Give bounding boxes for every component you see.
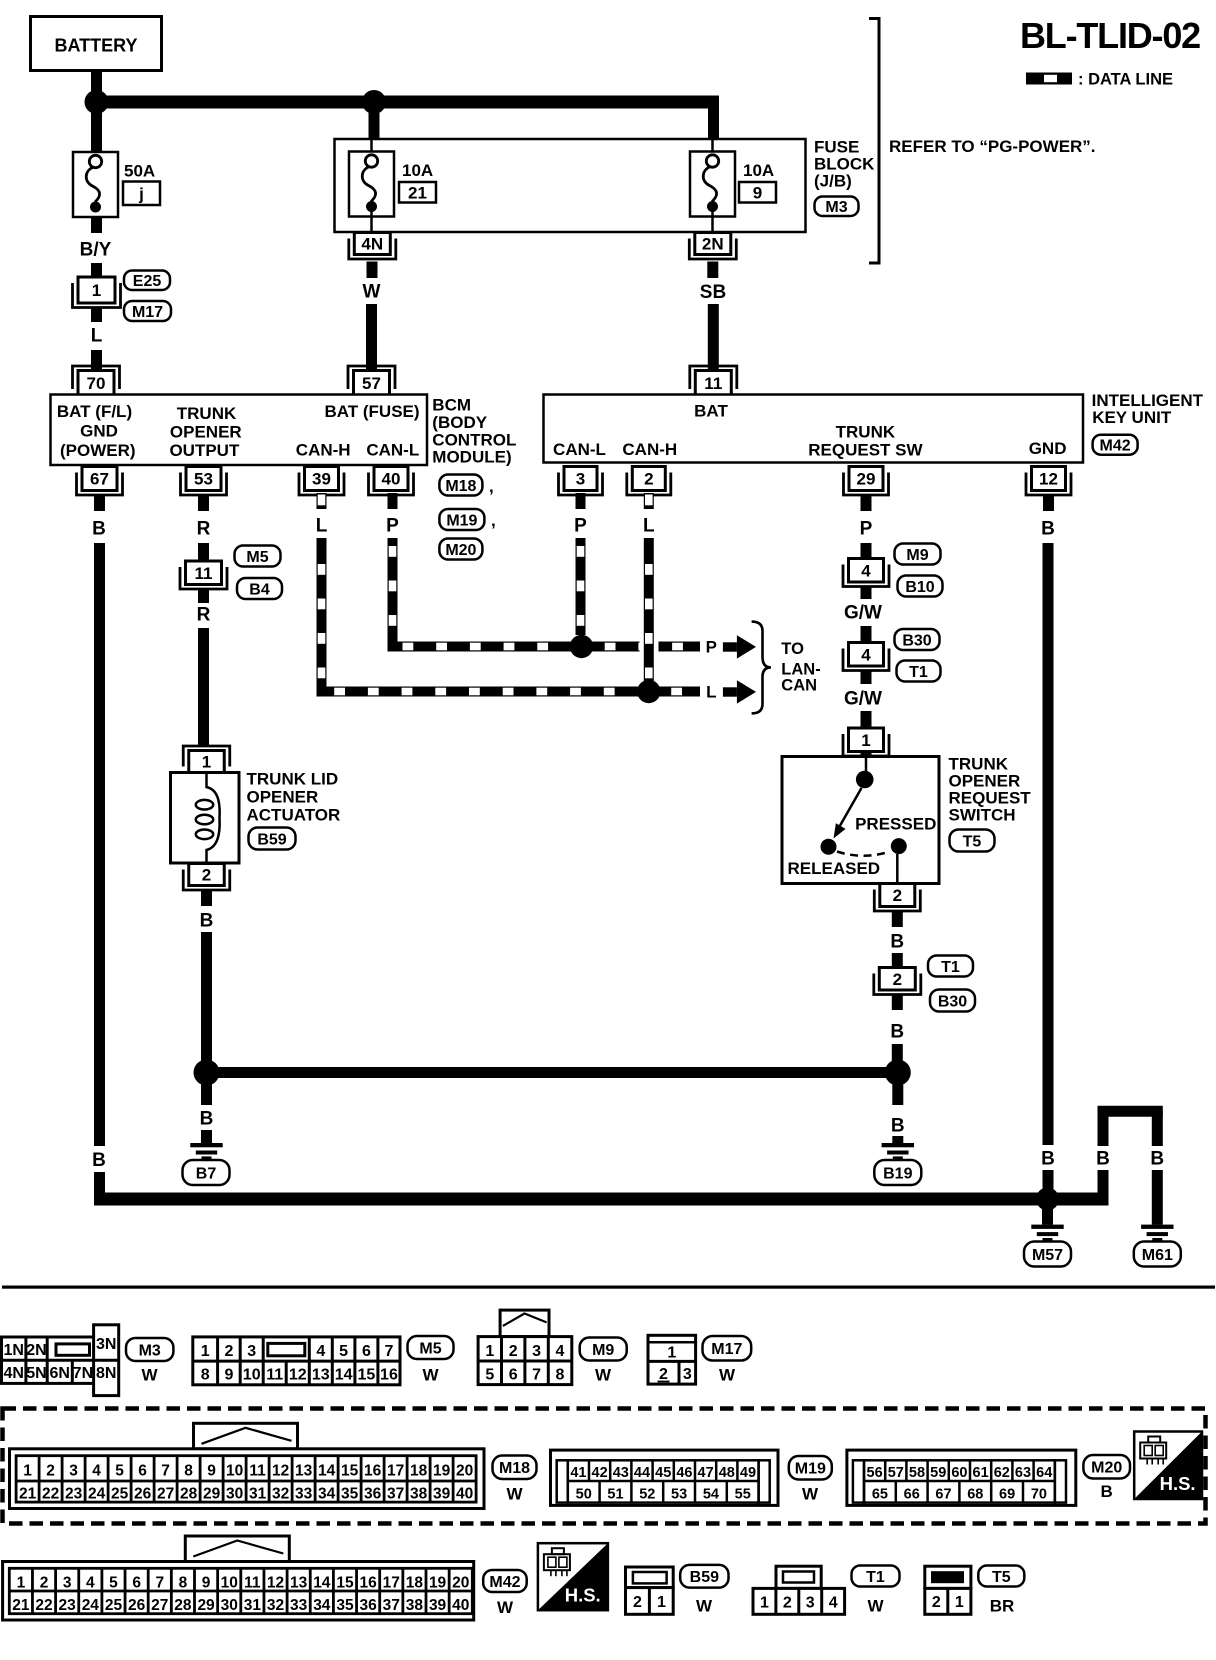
svg-text:45: 45 (655, 1465, 671, 1481)
brace LAN-CAN (752, 622, 771, 714)
pin 70 BCM (73, 366, 120, 395)
connector M42 pinout (3, 1536, 474, 1620)
pin 12 IKU (1026, 467, 1071, 496)
svg-text:43: 43 (613, 1465, 629, 1481)
svg-text:: DATA LINE: : DATA LINE (1078, 71, 1173, 89)
svg-text:42: 42 (592, 1465, 608, 1481)
svg-text:RELEASED: RELEASED (788, 859, 881, 878)
connector B59 pinout (626, 1567, 674, 1614)
svg-text:P: P (386, 516, 399, 537)
svg-text:23: 23 (65, 1486, 83, 1503)
svg-text:3: 3 (69, 1462, 78, 1479)
svg-text:T5: T5 (963, 833, 982, 850)
svg-text:5: 5 (485, 1367, 494, 1384)
connector T5 pinout (925, 1566, 971, 1614)
wire to switch box (861, 752, 872, 757)
svg-text:M19: M19 (795, 1461, 826, 1478)
pin 40 BCM (369, 467, 414, 496)
svg-text:26: 26 (128, 1597, 146, 1614)
svg-text:M20: M20 (445, 542, 476, 559)
oval T1 bottom (852, 1566, 900, 1616)
wire P pin 29 down (860, 495, 873, 559)
svg-text:51: 51 (607, 1487, 623, 1503)
svg-text:L: L (91, 326, 103, 347)
oval T1 inline (897, 661, 941, 682)
oval B30 inline (895, 629, 940, 650)
svg-text:P: P (574, 516, 587, 537)
svg-text:50: 50 (576, 1487, 592, 1503)
svg-text:6: 6 (132, 1574, 141, 1591)
svg-text:1: 1 (861, 731, 870, 750)
svg-text:13: 13 (295, 1462, 313, 1479)
svg-text:R: R (197, 519, 211, 540)
svg-text:2N: 2N (26, 1342, 46, 1359)
bracket refer pg-power (869, 19, 1096, 264)
junction B right (885, 1060, 911, 1086)
junction B left (194, 1060, 220, 1086)
svg-text:SWITCH: SWITCH (949, 806, 1016, 825)
svg-text:M17: M17 (132, 304, 163, 321)
svg-text:1: 1 (92, 281, 101, 300)
svg-text:1: 1 (201, 1343, 210, 1360)
svg-text:5: 5 (109, 1574, 118, 1591)
svg-text:11: 11 (249, 1462, 266, 1479)
arrow P to LAN-CAN (706, 635, 756, 658)
svg-text:22: 22 (42, 1486, 59, 1503)
oval M42 IKU (1093, 435, 1138, 455)
svg-text:9: 9 (207, 1462, 216, 1479)
svg-text:18: 18 (406, 1574, 424, 1591)
svg-text:W: W (363, 282, 381, 303)
svg-text:B: B (1150, 1149, 1164, 1170)
connector 2 T1/B30 (874, 968, 921, 995)
oval M17 (124, 301, 171, 321)
oval T5 bottom (978, 1566, 1024, 1616)
svg-text:T1: T1 (909, 664, 928, 681)
svg-text:17: 17 (387, 1462, 404, 1479)
svg-text:37: 37 (383, 1597, 400, 1614)
svg-text:2: 2 (932, 1594, 941, 1611)
svg-text:BR: BR (990, 1597, 1015, 1616)
bottom ground bus (94, 1193, 1048, 1206)
svg-text:G/W: G/W (844, 603, 882, 624)
svg-text:4: 4 (86, 1574, 95, 1591)
svg-text:11: 11 (244, 1574, 261, 1591)
svg-text:R: R (197, 605, 211, 626)
wire B/Y fuse to connector E25 (80, 217, 112, 278)
data line legend (1026, 71, 1173, 89)
svg-text:16: 16 (364, 1462, 382, 1479)
connector 4N (349, 233, 396, 260)
svg-text:3N: 3N (96, 1336, 116, 1353)
pin 11 IKU (690, 366, 737, 395)
svg-text:(POWER): (POWER) (60, 441, 136, 460)
svg-text:B: B (1096, 1149, 1110, 1170)
svg-text:4: 4 (316, 1343, 325, 1360)
arrow L to LAN-CAN (706, 680, 756, 703)
oval M19 BCM (439, 509, 495, 530)
svg-text:10A: 10A (402, 161, 433, 180)
svg-text:OUTPUT: OUTPUT (169, 441, 240, 460)
svg-text:12: 12 (289, 1367, 307, 1384)
connector M9 pinout (478, 1310, 572, 1385)
svg-text:10: 10 (243, 1367, 261, 1384)
section divider (2, 1286, 1215, 1289)
svg-text:TRUNK: TRUNK (177, 404, 237, 423)
svg-text:BAT: BAT (694, 402, 728, 421)
svg-text:12: 12 (272, 1462, 289, 1479)
connector 2N (689, 233, 736, 260)
fuse 50A j (73, 152, 160, 217)
svg-text:32: 32 (267, 1597, 284, 1614)
svg-text:,: , (489, 477, 494, 496)
junction battery bus (85, 90, 109, 114)
svg-text:39: 39 (429, 1597, 447, 1614)
svg-text:2: 2 (659, 1366, 668, 1383)
pin 2 IKU (627, 467, 671, 496)
svg-text:BCM: BCM (432, 396, 471, 415)
dashed group border (3, 1409, 1206, 1524)
svg-text:38: 38 (410, 1486, 428, 1503)
svg-text:64: 64 (1036, 1465, 1052, 1481)
svg-text:TRUNK: TRUNK (836, 423, 896, 442)
svg-text:2: 2 (40, 1574, 49, 1591)
svg-text:33: 33 (290, 1597, 308, 1614)
svg-text:61: 61 (973, 1465, 989, 1481)
oval B4 (237, 578, 282, 599)
svg-text:55: 55 (735, 1487, 751, 1503)
oval M17 bottom (703, 1336, 752, 1385)
svg-text:8: 8 (556, 1367, 565, 1384)
wire B to junction (890, 996, 904, 1073)
wire CAN-H L from pin 2 (643, 493, 655, 683)
svg-text:41: 41 (570, 1465, 586, 1481)
oval M3 bottom (126, 1338, 173, 1385)
svg-text:50A: 50A (124, 162, 155, 181)
svg-text:B: B (92, 1150, 106, 1171)
oval M18 bottom (493, 1456, 537, 1504)
svg-text:T1: T1 (941, 959, 960, 976)
svg-text:31: 31 (249, 1486, 267, 1503)
svg-text:8: 8 (184, 1462, 193, 1479)
svg-text:67: 67 (90, 470, 109, 489)
svg-text:CAN-L: CAN-L (366, 441, 419, 460)
svg-text:65: 65 (872, 1487, 888, 1503)
svg-text:2: 2 (893, 886, 902, 905)
svg-text:25: 25 (111, 1486, 129, 1503)
svg-text:M9: M9 (592, 1342, 614, 1359)
svg-text:SB: SB (700, 282, 726, 303)
svg-text:38: 38 (406, 1597, 424, 1614)
H.S. symbol row3 (538, 1543, 608, 1610)
svg-text:3: 3 (247, 1343, 256, 1360)
svg-text:6: 6 (362, 1343, 371, 1360)
svg-text:8: 8 (201, 1367, 210, 1384)
connector M20 pinout (847, 1450, 1076, 1505)
oval E25 (124, 271, 170, 291)
svg-text:3: 3 (532, 1343, 541, 1360)
svg-text:33: 33 (295, 1486, 313, 1503)
svg-text:40: 40 (452, 1597, 469, 1614)
svg-text:57: 57 (362, 374, 381, 393)
connector M17 pinout (648, 1335, 696, 1384)
svg-text:16: 16 (360, 1574, 378, 1591)
svg-text:3: 3 (806, 1595, 815, 1612)
svg-text:25: 25 (105, 1597, 123, 1614)
svg-text:49: 49 (740, 1465, 756, 1481)
ground B19 (874, 1143, 921, 1185)
svg-text:M17: M17 (711, 1341, 742, 1358)
IKU label (1092, 391, 1204, 427)
BCM box (51, 395, 428, 466)
svg-text:B: B (891, 1116, 905, 1137)
svg-text:B10: B10 (905, 579, 934, 596)
oval T5 (950, 830, 995, 852)
svg-text:58: 58 (909, 1465, 925, 1481)
wire L connector to BCM pin 70 (91, 308, 103, 370)
svg-text:8: 8 (179, 1574, 188, 1591)
svg-text:TO: TO (781, 640, 804, 658)
connector 4 M9/B10 (843, 559, 889, 587)
svg-text:2: 2 (509, 1343, 518, 1360)
svg-text:1N: 1N (3, 1342, 23, 1359)
oval B10 (898, 576, 943, 597)
svg-text:B/Y: B/Y (80, 240, 112, 261)
svg-text:1: 1 (23, 1462, 32, 1479)
svg-text:10: 10 (221, 1574, 238, 1591)
oval M42 bottom (483, 1570, 527, 1617)
svg-text:M20: M20 (1091, 1460, 1122, 1477)
svg-text:68: 68 (967, 1487, 983, 1503)
svg-text:(J/B): (J/B) (814, 172, 852, 191)
svg-text:15: 15 (358, 1367, 376, 1384)
svg-text:OPENER: OPENER (170, 423, 242, 442)
svg-text:10: 10 (226, 1462, 243, 1479)
svg-text:7: 7 (384, 1343, 393, 1360)
svg-text:11: 11 (195, 564, 213, 583)
svg-text:W: W (422, 1366, 439, 1385)
svg-text:BATTERY: BATTERY (55, 36, 138, 56)
wire battery to bus (91, 70, 102, 103)
svg-text:T5: T5 (992, 1569, 1011, 1586)
oval T1 inline 2 (928, 956, 973, 977)
svg-text:22: 22 (35, 1597, 52, 1614)
connector T1 pinout (753, 1566, 845, 1614)
svg-text:M61: M61 (1142, 1247, 1173, 1264)
wire M57 stub (1042, 1199, 1053, 1225)
svg-text:M18: M18 (499, 1460, 530, 1477)
junction CAN L (637, 680, 660, 703)
svg-text:4N: 4N (361, 235, 383, 254)
svg-text:PRESSED: PRESSED (855, 815, 936, 834)
pin 67 BCM (77, 467, 123, 496)
svg-text:54: 54 (703, 1487, 719, 1503)
svg-text:W: W (506, 1485, 523, 1504)
svg-text:63: 63 (1015, 1465, 1031, 1481)
svg-text:1: 1 (955, 1594, 964, 1611)
svg-text:67: 67 (935, 1487, 951, 1503)
oval M3 fuse block (815, 197, 859, 217)
svg-text:ACTUATOR: ACTUATOR (247, 806, 341, 825)
wire B actuator down (200, 890, 214, 1073)
svg-text:CAN: CAN (781, 677, 817, 695)
wire B pin 67 down (92, 495, 106, 1199)
oval M5 bottom (408, 1336, 454, 1385)
label B n-left (1096, 1149, 1110, 1170)
svg-text:B: B (890, 1022, 904, 1043)
svg-text:4: 4 (861, 561, 871, 580)
svg-text:GND: GND (80, 422, 118, 441)
oval M20 bottom (1083, 1455, 1130, 1501)
svg-text:62: 62 (994, 1465, 1010, 1481)
svg-text:21: 21 (408, 184, 427, 203)
wire R to actuator (197, 590, 211, 748)
wire bus to fuse 21 (369, 102, 380, 140)
svg-text:GND: GND (1029, 439, 1067, 458)
svg-text:W: W (867, 1597, 884, 1616)
svg-text:3: 3 (63, 1574, 72, 1591)
svg-text:57: 57 (888, 1465, 904, 1481)
svg-text:B: B (200, 1109, 214, 1130)
svg-text:BL-TLID-02: BL-TLID-02 (1020, 15, 1200, 56)
svg-text:2: 2 (783, 1595, 792, 1612)
svg-text:1: 1 (657, 1594, 666, 1611)
svg-text:7: 7 (155, 1574, 164, 1591)
svg-text:30: 30 (226, 1486, 243, 1503)
svg-text:M5: M5 (419, 1340, 441, 1357)
wire bus to fuse block (708, 102, 719, 140)
svg-text:W: W (141, 1366, 158, 1385)
svg-text:7: 7 (532, 1367, 541, 1384)
svg-text:OPENER: OPENER (247, 788, 319, 807)
oval M19 bottom (789, 1456, 832, 1504)
svg-text:G/W: G/W (844, 689, 882, 710)
svg-text:11: 11 (266, 1367, 283, 1384)
wire W 4N to BCM pin 57 (363, 262, 381, 370)
svg-text:17: 17 (383, 1574, 400, 1591)
svg-text:W: W (719, 1366, 736, 1385)
oval M9 bottom (580, 1338, 627, 1385)
pin 3 IKU (559, 467, 603, 496)
svg-text:24: 24 (82, 1597, 100, 1614)
svg-text:26: 26 (134, 1486, 152, 1503)
oval B30 inline 2 (930, 990, 975, 1012)
svg-text:4N: 4N (3, 1365, 23, 1382)
svg-text:8N: 8N (96, 1365, 116, 1382)
svg-text:39: 39 (312, 470, 331, 489)
svg-text:70: 70 (87, 374, 106, 393)
svg-text:14: 14 (318, 1462, 336, 1479)
wire bus to fuse 50A (91, 102, 102, 153)
svg-text:35: 35 (341, 1486, 359, 1503)
pin 2 actuator (183, 864, 230, 891)
svg-text:MODULE): MODULE) (432, 448, 511, 467)
svg-text:2: 2 (202, 866, 211, 885)
svg-text:1: 1 (17, 1574, 26, 1591)
svg-text:4: 4 (556, 1343, 565, 1360)
wire bus to n-link (1048, 1193, 1109, 1206)
pin 39 BCM (299, 467, 344, 496)
trunk opener request switch T5 (782, 757, 939, 884)
pin 57 BCM (348, 366, 395, 395)
svg-text:9: 9 (202, 1574, 211, 1591)
svg-text:24: 24 (88, 1486, 106, 1503)
svg-text:53: 53 (194, 470, 213, 489)
svg-text:j: j (138, 185, 144, 204)
svg-text:59: 59 (930, 1465, 946, 1481)
wire G/W 2 (844, 671, 882, 728)
svg-text:52: 52 (639, 1487, 655, 1503)
svg-text:M3: M3 (139, 1342, 161, 1359)
svg-text:46: 46 (676, 1465, 692, 1481)
svg-text:20: 20 (456, 1462, 473, 1479)
connector 11 M5/B4 (180, 561, 227, 589)
actuator label (247, 770, 341, 825)
svg-text:CAN-H: CAN-H (622, 440, 677, 459)
svg-text:1: 1 (202, 753, 211, 772)
svg-text:L: L (706, 683, 716, 702)
svg-text:29: 29 (203, 1486, 221, 1503)
svg-text:P: P (860, 519, 873, 540)
svg-text:BAT (F/L): BAT (F/L) (57, 402, 132, 421)
pin 29 IKU (844, 467, 889, 496)
main power bus (97, 96, 720, 109)
svg-text:4: 4 (861, 645, 871, 664)
svg-text:B: B (1041, 1149, 1055, 1170)
svg-text:13: 13 (312, 1367, 330, 1384)
svg-text:L: L (316, 516, 328, 537)
svg-text:35: 35 (336, 1597, 354, 1614)
wire B pin 12 down (1041, 495, 1055, 1199)
svg-text:5: 5 (339, 1343, 348, 1360)
switch label (949, 755, 1032, 825)
svg-text:27: 27 (157, 1486, 174, 1503)
svg-text:M3: M3 (825, 199, 847, 216)
svg-text:1: 1 (667, 1345, 676, 1362)
svg-text:21: 21 (12, 1597, 30, 1614)
junction fuse 21 bus (362, 90, 386, 114)
svg-text:TRUNK LID: TRUNK LID (247, 770, 339, 789)
svg-text:B: B (200, 911, 214, 932)
svg-text:15: 15 (336, 1574, 354, 1591)
svg-text:4: 4 (829, 1595, 838, 1612)
svg-text:40: 40 (382, 470, 401, 489)
connector M3 pinout (2, 1325, 119, 1396)
svg-text:W: W (595, 1366, 612, 1385)
svg-text:28: 28 (180, 1486, 198, 1503)
pin 2 switch (874, 884, 920, 912)
connector M18 pinout (10, 1423, 485, 1508)
svg-text:37: 37 (387, 1486, 404, 1503)
svg-text:B: B (92, 519, 106, 540)
svg-text:30: 30 (221, 1597, 238, 1614)
battery (31, 17, 162, 71)
svg-text:6N: 6N (49, 1365, 69, 1382)
svg-text:66: 66 (904, 1487, 920, 1503)
wire SB 2N to IKU pin 11 (700, 262, 726, 370)
svg-text:CAN-H: CAN-H (296, 441, 351, 460)
oval M5 (235, 546, 281, 567)
wire CAN-L P from pin 40 (386, 493, 700, 654)
svg-text:2: 2 (633, 1594, 642, 1611)
svg-text:3: 3 (683, 1366, 692, 1383)
svg-text:56: 56 (867, 1465, 883, 1481)
fuse 10A 21 (349, 140, 436, 233)
wire R pin 53 down (197, 495, 211, 561)
svg-text:H.S.: H.S. (1160, 1473, 1196, 1494)
svg-text:BAT (FUSE): BAT (FUSE) (324, 402, 419, 421)
intelligent key unit box (544, 395, 1084, 463)
